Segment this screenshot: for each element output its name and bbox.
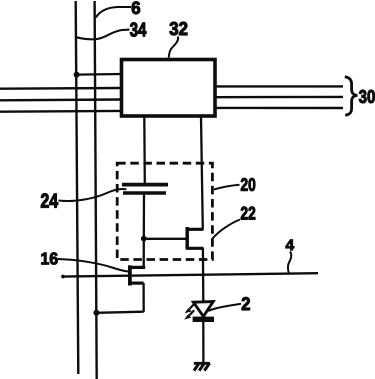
leader for 32 — [169, 37, 178, 58]
output bus right 2 — [215, 96, 343, 99]
ground hatch 2 — [199, 363, 204, 371]
leader for 22 — [213, 220, 241, 239]
label 34 — [130, 23, 146, 37]
leader for 4 — [288, 252, 291, 274]
wire: block 32 to drain of transistor 22 — [201, 117, 203, 229]
bus line left 3 — [0, 110, 121, 113]
capacitor 24 bottom plate — [123, 191, 166, 195]
label 4 — [286, 240, 294, 251]
transistor 22 bottom arm — [186, 247, 204, 250]
label 20 — [241, 178, 255, 191]
dashed pixel-circuit box 20 — [117, 163, 212, 259]
wire: across to line 6 — [96, 312, 143, 313]
transistor 16 top arm — [128, 266, 145, 269]
label 24 — [41, 194, 58, 208]
ground hatch 1 — [194, 363, 199, 371]
wire: vertical line 34 (left) — [76, 1, 79, 374]
wire: source of 22 down to LED anode — [202, 248, 205, 302]
capacitor 24 top plate — [122, 183, 168, 187]
wire: junction to driver block — [77, 73, 122, 76]
wire: block 32 to capacitor top plate — [143, 117, 146, 183]
leader for 2 — [208, 304, 241, 311]
wire: storage node to gate of transistor 22 — [144, 238, 187, 240]
tick at left end of scan line 4 — [61, 275, 65, 279]
leader for 16 — [58, 259, 128, 272]
leader for 20 — [214, 185, 240, 190]
scan line 4 — [62, 273, 318, 276]
junction dot on line 34 — [74, 72, 80, 78]
transistor 16 gate bar — [128, 265, 132, 285]
driver block 32 — [122, 60, 216, 117]
LED 2 cathode bar — [193, 317, 214, 322]
LED emission arrow 2 — [189, 310, 194, 315]
bus line left 2 — [0, 98, 121, 101]
output bus right 3 — [215, 107, 343, 109]
LED emission arrow 1 — [190, 303, 196, 309]
label 30 — [359, 90, 375, 103]
transistor 16 bottom arm — [128, 282, 143, 285]
wire: source of 16 down — [142, 283, 144, 312]
label 2 — [242, 297, 250, 310]
leader for 34 — [77, 30, 130, 40]
wire: capacitor bottom plate down to storage node — [143, 193, 145, 239]
bus line left 1 — [0, 87, 121, 90]
label 32 — [170, 22, 188, 35]
wire: vertical line 6 (right) — [95, 1, 97, 379]
label 16 — [41, 252, 57, 264]
transistor 22 top arm — [186, 228, 204, 231]
wire: storage node down to drain of transistor 16 — [143, 239, 145, 268]
junction dot on line 6 — [93, 310, 99, 316]
label 22 — [241, 207, 255, 220]
ground bar — [194, 362, 210, 365]
label 6 — [132, 2, 140, 15]
transistor 22 gate bar — [185, 227, 189, 249]
junction dot storage node — [141, 236, 147, 242]
LED 2 triangle (anode) — [193, 302, 213, 317]
leader for 6 — [96, 7, 131, 18]
wire: LED cathode to ground — [202, 322, 204, 363]
ground hatch 3 — [204, 363, 209, 371]
leader for 24 — [59, 189, 127, 201]
brace 30 — [345, 77, 358, 115]
output bus right 1 — [215, 85, 343, 87]
